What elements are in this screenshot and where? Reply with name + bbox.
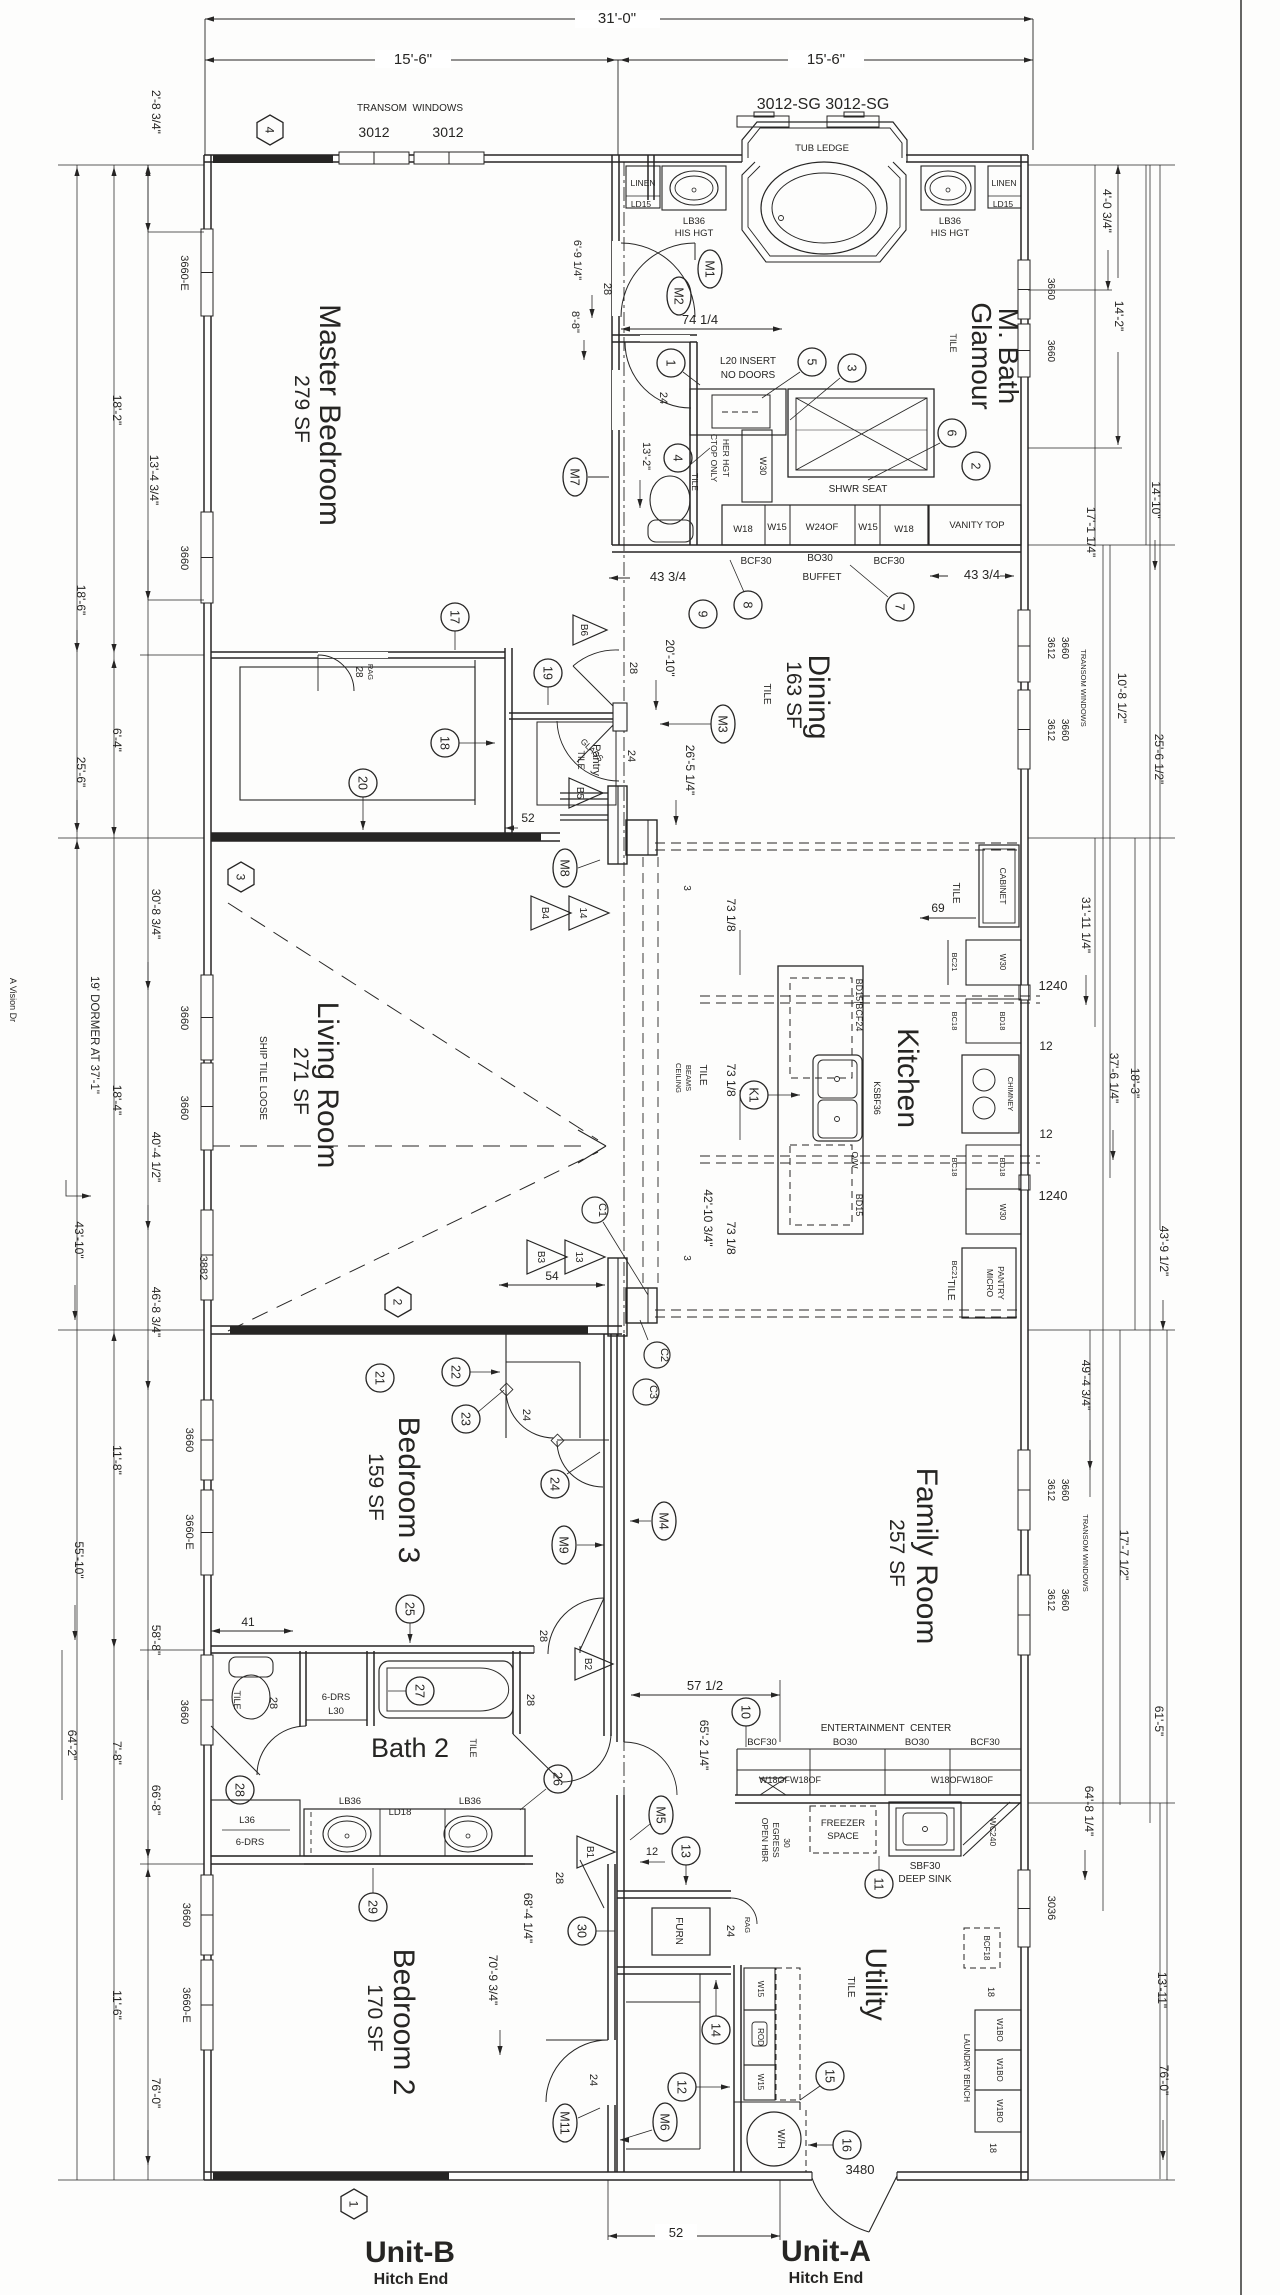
svg-text:LD15: LD15 (631, 199, 652, 209)
svg-text:66'-8": 66'-8" (149, 1785, 163, 1816)
svg-text:W1BO: W1BO (995, 2099, 1004, 2123)
svg-text:18'-2": 18'-2" (110, 395, 124, 426)
svg-text:3660-E: 3660-E (180, 1987, 192, 2022)
svg-text:61'-5": 61'-5" (1152, 1706, 1166, 1737)
svg-text:19' DORMER AT 37'-1": 19' DORMER AT 37'-1" (88, 976, 100, 1094)
svg-text:C3: C3 (647, 1385, 659, 1399)
svg-text:BD15: BD15 (854, 1194, 864, 1217)
svg-text:28: 28 (553, 1872, 565, 1884)
svg-text:18: 18 (438, 736, 452, 750)
svg-text:3660: 3660 (178, 1006, 190, 1030)
svg-text:12: 12 (646, 1846, 658, 1858)
svg-text:3660: 3660 (1059, 1479, 1070, 1502)
svg-text:13: 13 (679, 1844, 693, 1858)
svg-text:279 SF: 279 SF (290, 375, 313, 443)
svg-text:BO30: BO30 (807, 553, 833, 564)
svg-text:PANTRY: PANTRY (996, 1266, 1006, 1300)
svg-text:M4: M4 (657, 1512, 671, 1529)
svg-text:31'-0": 31'-0" (598, 10, 636, 27)
svg-text:3660: 3660 (183, 1428, 195, 1452)
svg-text:A Vision Dr: A Vision Dr (8, 978, 18, 1022)
svg-text:Family Room: Family Room (910, 1468, 943, 1645)
svg-text:TILE: TILE (690, 473, 700, 491)
svg-text:20: 20 (356, 776, 370, 790)
svg-text:70'-9 3/4": 70'-9 3/4" (486, 1955, 500, 2006)
svg-text:7'-8": 7'-8" (110, 1741, 124, 1765)
svg-text:14: 14 (709, 2023, 723, 2037)
svg-text:W/H: W/H (775, 2129, 786, 2148)
svg-text:24: 24 (625, 750, 637, 762)
svg-text:41: 41 (241, 1615, 255, 1629)
svg-text:12: 12 (1039, 1127, 1053, 1141)
svg-text:HIS HGT: HIS HGT (931, 228, 970, 239)
svg-text:Dining: Dining (802, 654, 835, 739)
svg-text:TILE: TILE (761, 683, 772, 704)
svg-text:SPACE: SPACE (827, 1831, 859, 1842)
svg-text:25'-6 1/2": 25'-6 1/2" (1152, 734, 1166, 785)
svg-text:10'-8 1/2": 10'-8 1/2" (1115, 673, 1129, 724)
svg-text:6-DRS: 6-DRS (236, 1837, 265, 1848)
svg-text:13'-4 3/4": 13'-4 3/4" (147, 455, 161, 506)
svg-text:52: 52 (669, 2225, 683, 2240)
svg-text:170 SF: 170 SF (363, 1984, 386, 2052)
svg-text:4: 4 (263, 127, 277, 134)
svg-text:W30: W30 (998, 1204, 1007, 1221)
svg-text:3660: 3660 (1045, 278, 1056, 301)
svg-text:M2: M2 (672, 287, 686, 304)
svg-text:43 3/4: 43 3/4 (650, 569, 686, 584)
svg-text:B3: B3 (535, 1251, 546, 1264)
svg-text:B4: B4 (539, 907, 550, 920)
svg-text:24: 24 (548, 1477, 562, 1491)
svg-text:RAG: RAG (743, 1917, 752, 1933)
svg-text:Bedroom 2: Bedroom 2 (387, 1949, 420, 2096)
svg-text:M6: M6 (658, 2113, 672, 2130)
svg-text:W18: W18 (733, 524, 753, 535)
svg-text:TILE: TILE (950, 882, 961, 903)
svg-text:C1: C1 (596, 1203, 608, 1217)
svg-text:28: 28 (233, 1783, 247, 1797)
svg-text:30'-8 3/4": 30'-8 3/4" (149, 889, 163, 940)
svg-text:BEAMS: BEAMS (684, 1065, 693, 1091)
svg-text:23: 23 (459, 1412, 473, 1426)
svg-text:49'-4 3/4": 49'-4 3/4" (1079, 1360, 1093, 1411)
svg-text:M. Bath: M. Bath (993, 308, 1024, 404)
svg-text:3: 3 (681, 885, 692, 891)
svg-text:6'-4": 6'-4" (110, 728, 124, 752)
svg-text:TUB LEDGE: TUB LEDGE (795, 143, 849, 154)
svg-text:M3: M3 (716, 715, 730, 732)
svg-text:3660: 3660 (178, 1700, 190, 1724)
svg-text:Hitch End: Hitch End (789, 2270, 864, 2287)
svg-text:M5: M5 (654, 1806, 668, 1823)
svg-text:BUFFET: BUFFET (803, 572, 842, 583)
svg-text:3660: 3660 (1059, 1589, 1070, 1612)
svg-text:W30: W30 (758, 457, 768, 476)
svg-text:11: 11 (872, 1878, 886, 1891)
svg-text:TILE: TILE (697, 1064, 708, 1085)
svg-text:64'-8 1/4": 64'-8 1/4" (1082, 1786, 1096, 1837)
svg-text:15: 15 (823, 2069, 837, 2083)
svg-text:3012: 3012 (432, 124, 463, 140)
svg-text:57 1/2: 57 1/2 (687, 1678, 723, 1693)
svg-text:22: 22 (449, 1365, 463, 1379)
svg-text:OPEN HBR: OPEN HBR (760, 1818, 770, 1862)
svg-text:6: 6 (945, 430, 959, 437)
svg-text:Unit-A: Unit-A (781, 2235, 871, 2268)
svg-text:CEILING: CEILING (674, 1063, 683, 1093)
svg-text:O/W: O/W (850, 1152, 860, 1169)
svg-text:ROD: ROD (756, 2028, 765, 2046)
svg-text:15'-6": 15'-6" (807, 51, 845, 68)
svg-text:54: 54 (545, 1269, 559, 1283)
svg-text:FREEZER: FREEZER (821, 1818, 865, 1829)
svg-text:1: 1 (664, 360, 678, 367)
svg-text:3: 3 (681, 1255, 692, 1261)
svg-text:24: 24 (587, 2074, 599, 2086)
svg-text:W18: W18 (894, 524, 914, 535)
svg-text:28: 28 (524, 1694, 536, 1706)
svg-text:NO DOORS: NO DOORS (721, 370, 776, 381)
svg-text:SBF30: SBF30 (910, 1861, 941, 1872)
svg-text:TRANSOM WINDOWS: TRANSOM WINDOWS (357, 103, 463, 114)
svg-text:25'-6": 25'-6" (74, 757, 88, 788)
svg-text:Bedroom 3: Bedroom 3 (392, 1417, 425, 1564)
svg-text:76'-0": 76'-0" (1157, 2065, 1171, 2096)
svg-text:257 SF: 257 SF (885, 1519, 908, 1587)
svg-text:68'-4 1/4": 68'-4 1/4" (521, 1893, 535, 1944)
svg-text:RAG: RAG (366, 664, 375, 680)
svg-text:W15: W15 (767, 522, 787, 533)
svg-text:20'-10": 20'-10" (663, 639, 677, 676)
svg-text:M8: M8 (558, 859, 572, 876)
svg-text:3660-E: 3660-E (183, 1514, 195, 1549)
svg-text:21: 21 (373, 1371, 387, 1385)
svg-text:LD18: LD18 (389, 1807, 412, 1818)
svg-text:11'-6": 11'-6" (110, 1990, 124, 2020)
svg-text:3660: 3660 (1059, 637, 1070, 660)
svg-text:28: 28 (267, 1697, 279, 1709)
svg-text:74 1/4: 74 1/4 (682, 312, 718, 327)
svg-text:2'-8 3/4": 2'-8 3/4" (149, 90, 163, 134)
svg-text:3660: 3660 (180, 1903, 192, 1927)
svg-text:43'-10": 43'-10" (72, 1221, 86, 1258)
svg-text:LB36: LB36 (683, 216, 705, 227)
svg-text:LB36: LB36 (339, 1796, 361, 1807)
svg-text:15'-6": 15'-6" (394, 51, 432, 68)
svg-text:BCF30: BCF30 (873, 556, 905, 567)
svg-text:KSBF36: KSBF36 (872, 1081, 882, 1115)
svg-text:BC21: BC21 (950, 1261, 959, 1280)
svg-text:HER HGT: HER HGT (721, 439, 731, 477)
svg-text:VANITY TOP: VANITY TOP (949, 520, 1004, 531)
svg-text:FURN: FURN (673, 1917, 684, 1945)
svg-text:W1BO: W1BO (995, 2058, 1004, 2082)
svg-text:3: 3 (845, 365, 859, 372)
svg-text:4: 4 (671, 455, 685, 462)
svg-text:29: 29 (366, 1900, 380, 1914)
svg-text:3660: 3660 (1045, 340, 1056, 363)
svg-text:Living Room: Living Room (311, 1002, 344, 1169)
svg-text:65'-2 1/4": 65'-2 1/4" (697, 1720, 711, 1771)
svg-text:31'-11 1/4": 31'-11 1/4" (1079, 897, 1093, 953)
svg-text:18'-6": 18'-6" (74, 585, 88, 616)
svg-text:BCF30: BCF30 (740, 556, 772, 567)
svg-text:42'-10 3/4": 42'-10 3/4" (701, 1189, 715, 1246)
svg-text:14'-10": 14'-10" (1149, 481, 1163, 518)
svg-text:3660: 3660 (1059, 719, 1070, 742)
svg-text:3660: 3660 (178, 1096, 190, 1120)
svg-text:7: 7 (893, 604, 907, 611)
svg-text:11'-8": 11'-8" (110, 1445, 124, 1475)
svg-text:18'-4": 18'-4" (110, 1085, 124, 1116)
svg-text:B1: B1 (584, 1846, 595, 1859)
svg-text:Bath 2: Bath 2 (371, 1733, 449, 1763)
svg-text:17: 17 (448, 610, 462, 624)
svg-text:TILE: TILE (945, 1279, 956, 1300)
svg-text:6'-9 1/4": 6'-9 1/4" (571, 240, 583, 280)
svg-text:24: 24 (724, 1925, 736, 1937)
svg-text:40'-4 1/2": 40'-4 1/2" (149, 1132, 163, 1183)
svg-text:BC21: BC21 (950, 953, 959, 972)
svg-text:26: 26 (551, 1772, 565, 1786)
svg-text:Master Bedroom: Master Bedroom (313, 304, 346, 526)
svg-text:2: 2 (391, 1299, 405, 1306)
svg-text:9: 9 (696, 611, 710, 618)
svg-text:12: 12 (1039, 1039, 1053, 1053)
svg-text:163 SF: 163 SF (782, 661, 805, 729)
svg-text:14: 14 (577, 907, 588, 919)
svg-text:28: 28 (537, 1630, 549, 1642)
svg-text:28: 28 (627, 662, 639, 674)
svg-text:19: 19 (541, 666, 555, 680)
svg-text:LD15: LD15 (993, 199, 1014, 209)
svg-text:LINEN: LINEN (991, 178, 1016, 188)
svg-text:M11: M11 (558, 2111, 572, 2134)
svg-text:18: 18 (986, 1987, 996, 1997)
svg-text:BD15|BCF24: BD15|BCF24 (854, 979, 864, 1032)
svg-text:18: 18 (988, 2143, 998, 2153)
svg-text:W1BO: W1BO (995, 2018, 1004, 2042)
svg-text:WC240: WC240 (988, 1818, 998, 1847)
svg-text:SHIP TILE LOOSE: SHIP TILE LOOSE (257, 1036, 268, 1120)
svg-text:M7: M7 (568, 468, 582, 485)
svg-text:3612: 3612 (1045, 719, 1056, 742)
svg-text:52: 52 (521, 811, 535, 825)
svg-text:25: 25 (403, 1602, 417, 1616)
svg-text:SHWR SEAT: SHWR SEAT (829, 484, 888, 495)
svg-text:30: 30 (575, 1924, 589, 1938)
svg-text:W30: W30 (998, 954, 1007, 971)
svg-text:L20 INSERT: L20 INSERT (720, 356, 776, 367)
svg-text:10: 10 (739, 1705, 753, 1719)
svg-text:3012: 3012 (358, 124, 389, 140)
svg-text:24: 24 (520, 1409, 532, 1421)
svg-text:28: 28 (353, 666, 364, 678)
svg-text:W15: W15 (756, 2074, 765, 2091)
svg-text:17'-1 1/4": 17'-1 1/4" (1084, 507, 1098, 558)
svg-text:LB36: LB36 (459, 1796, 481, 1807)
svg-text:4'-0 3/4": 4'-0 3/4" (1100, 189, 1114, 233)
svg-text:3612: 3612 (1045, 1589, 1056, 1612)
svg-text:BCF30: BCF30 (747, 1737, 777, 1748)
svg-text:14'-2": 14'-2" (1112, 301, 1126, 332)
svg-text:55'-10": 55'-10" (72, 1541, 86, 1578)
svg-text:73 1/8: 73 1/8 (724, 898, 738, 932)
svg-text:DEEP SINK: DEEP SINK (898, 1874, 951, 1885)
svg-text:ENTERTAINMENT CENTER: ENTERTAINMENT CENTER (821, 1723, 952, 1734)
svg-text:73 1/8: 73 1/8 (724, 1063, 738, 1097)
svg-text:24: 24 (657, 392, 669, 404)
svg-text:16: 16 (840, 2138, 854, 2152)
svg-text:37'-6 1/4": 37'-6 1/4" (1107, 1053, 1121, 1104)
svg-text:K1: K1 (747, 1087, 761, 1102)
svg-text:1240: 1240 (1039, 1188, 1068, 1203)
svg-text:CTOP ONLY: CTOP ONLY (709, 434, 719, 483)
svg-text:12: 12 (675, 2080, 689, 2094)
svg-text:HIS HGT: HIS HGT (675, 228, 714, 239)
svg-text:BD18: BD18 (998, 1158, 1007, 1177)
svg-text:3660-E: 3660-E (178, 255, 190, 290)
svg-text:3612: 3612 (1045, 1479, 1056, 1502)
svg-text:1240: 1240 (1039, 978, 1068, 993)
svg-text:M1: M1 (703, 260, 717, 277)
svg-text:13'-2": 13'-2" (640, 442, 652, 470)
svg-text:8: 8 (741, 602, 755, 609)
svg-text:28: 28 (601, 283, 613, 295)
svg-text:BC18: BC18 (950, 1012, 959, 1031)
svg-text:76'-0": 76'-0" (149, 2078, 163, 2109)
svg-text:26'-5 1/4": 26'-5 1/4" (683, 745, 697, 796)
svg-text:TRANSOM WINDOWS: TRANSOM WINDOWS (1081, 1514, 1090, 1592)
svg-text:17'-7 1/2": 17'-7 1/2" (1117, 1530, 1131, 1581)
svg-text:CHIMNEY: CHIMNEY (1006, 1077, 1015, 1112)
svg-text:BO30: BO30 (833, 1737, 857, 1748)
svg-text:13: 13 (573, 1251, 584, 1263)
svg-text:2: 2 (969, 463, 983, 470)
svg-text:BCF18: BCF18 (982, 1936, 991, 1961)
svg-text:3660: 3660 (178, 546, 190, 570)
svg-text:TRANSOM WINDOWS: TRANSOM WINDOWS (1079, 649, 1088, 727)
svg-text:BO30: BO30 (905, 1737, 929, 1748)
svg-text:3: 3 (234, 874, 248, 881)
svg-text:W24OF: W24OF (806, 522, 839, 533)
svg-text:L36: L36 (239, 1815, 255, 1826)
svg-text:W15: W15 (858, 522, 878, 533)
svg-text:TILE: TILE (576, 750, 586, 769)
svg-text:L30: L30 (328, 1706, 344, 1717)
svg-text:LINEN: LINEN (630, 178, 655, 188)
svg-text:W18OFW18OF: W18OFW18OF (931, 1775, 994, 1785)
svg-text:TILE: TILE (845, 1976, 856, 1997)
svg-text:6-DRS: 6-DRS (322, 1692, 351, 1703)
svg-text:M9: M9 (557, 1536, 571, 1553)
svg-text:3480: 3480 (846, 2162, 875, 2177)
svg-text:BCF30: BCF30 (970, 1737, 1000, 1748)
svg-text:Utility: Utility (859, 1947, 892, 2020)
svg-text:58'-8": 58'-8" (149, 1625, 163, 1656)
svg-text:3882: 3882 (197, 1256, 209, 1280)
svg-text:LB36: LB36 (939, 216, 961, 227)
svg-text:TILE: TILE (468, 1738, 478, 1757)
svg-text:TILE: TILE (948, 333, 958, 352)
svg-text:B6: B6 (578, 624, 589, 637)
svg-text:B2: B2 (582, 1658, 593, 1671)
svg-text:LAUNDRY BENCH: LAUNDRY BENCH (962, 2034, 971, 2102)
svg-text:43 3/4: 43 3/4 (964, 567, 1000, 582)
svg-text:73 1/8: 73 1/8 (724, 1221, 738, 1255)
svg-text:1: 1 (347, 2201, 361, 2208)
svg-text:Unit-B: Unit-B (365, 2236, 455, 2269)
svg-text:C2: C2 (658, 1348, 670, 1362)
svg-text:EGRESS: EGRESS (771, 1822, 781, 1858)
svg-text:30: 30 (782, 1838, 792, 1848)
svg-text:Hitch End: Hitch End (374, 2271, 449, 2288)
svg-text:271 SF: 271 SF (289, 1047, 312, 1115)
svg-text:Glamour: Glamour (966, 302, 997, 409)
svg-text:Kitchen: Kitchen (891, 1028, 924, 1128)
svg-text:BD18: BD18 (998, 1012, 1007, 1031)
svg-text:CABINET: CABINET (998, 868, 1008, 905)
svg-text:5: 5 (805, 359, 819, 366)
svg-text:BC18: BC18 (950, 1158, 959, 1177)
svg-text:8'-8": 8'-8" (569, 311, 581, 333)
svg-text:3012-SG 3012-SG: 3012-SG 3012-SG (757, 96, 890, 113)
svg-text:3036: 3036 (1045, 1896, 1057, 1920)
svg-text:3612: 3612 (1045, 637, 1056, 660)
svg-text:43'-9 1/2": 43'-9 1/2" (1157, 1226, 1171, 1277)
svg-text:MICRO: MICRO (985, 1269, 995, 1298)
svg-text:27: 27 (413, 1684, 427, 1698)
svg-text:69: 69 (931, 901, 945, 915)
svg-text:159 SF: 159 SF (364, 1453, 387, 1521)
svg-text:W15: W15 (756, 1981, 765, 1998)
